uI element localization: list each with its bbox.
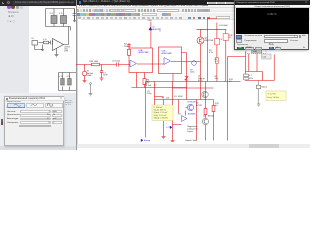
svg-text:AD8221AR: AD8221AR [162, 52, 173, 55]
svg-text:10k: 10k [166, 97, 169, 99]
svg-text:R8: R8 [162, 97, 165, 99]
svg-text:C2: C2 [154, 85, 157, 87]
svg-text:10nF: 10nF [103, 75, 108, 77]
svg-text:Q3: Q3 [203, 115, 207, 117]
svg-text:2N2222A: 2N2222A [205, 39, 214, 42]
svg-text:100n: 100n [190, 72, 194, 74]
svg-text:U3: U3 [178, 114, 181, 116]
svg-text:Probe1: Probe1 [261, 87, 268, 89]
svg-text:4.7k: 4.7k [215, 61, 219, 63]
svg-text:V: 5.2 mV: V: 5.2 mV [268, 93, 277, 95]
svg-text:10k: 10k [215, 78, 218, 80]
svg-text:D1: D1 [174, 96, 177, 98]
svg-text:4.7k: 4.7k [209, 52, 213, 54]
svg-text:VDD: VDD [148, 20, 153, 22]
svg-text:100n: 100n [147, 93, 151, 95]
svg-text:Freq: 1.0 kHz: Freq: 1.0 kHz [268, 96, 279, 99]
svg-text:65 %: 65 % [198, 80, 203, 82]
svg-text:30: 30 [229, 37, 232, 39]
svg-text:Выход: Выход [144, 140, 151, 142]
svg-text:4148: 4148 [178, 96, 183, 98]
svg-text:Серво 1 kHz: Серво 1 kHz [185, 140, 197, 142]
svg-text:XDA1: XDA1 [253, 50, 258, 53]
svg-text:AD8233: AD8233 [152, 28, 160, 31]
svg-text:4.7: 4.7 [249, 75, 253, 77]
svg-text:C2 10/10: C2 10/10 [112, 61, 121, 63]
svg-text:V(rms): 5.51 mV: V(rms): 5.51 mV [154, 111, 169, 114]
svg-text:0.5: 0.5 [215, 105, 219, 107]
svg-text:AD8698: AD8698 [188, 113, 196, 116]
svg-text:100k: 100k [124, 46, 128, 48]
svg-text:U2 BC547: U2 BC547 [187, 102, 197, 104]
svg-text:R30 100k: R30 100k [90, 61, 99, 63]
svg-text:BC547: BC547 [196, 105, 203, 107]
svg-text:Серво: Серво [187, 131, 194, 133]
svg-text:C4 100uF: C4 100uF [219, 25, 229, 27]
svg-text:35%: 35% [249, 78, 253, 80]
svg-text:BD140: BD140 [208, 115, 215, 117]
svg-text:1.2 V: 1.2 V [166, 127, 171, 129]
svg-text:1kHz: 1kHz [87, 75, 92, 77]
svg-text:C3: C3 [219, 39, 222, 41]
svg-text:AD8221AR: AD8221AR [139, 51, 150, 54]
svg-text:4.7uF: 4.7uF [146, 85, 152, 87]
svg-text:V(freq): 1.00 kHz: V(freq): 1.00 kHz [154, 116, 168, 119]
